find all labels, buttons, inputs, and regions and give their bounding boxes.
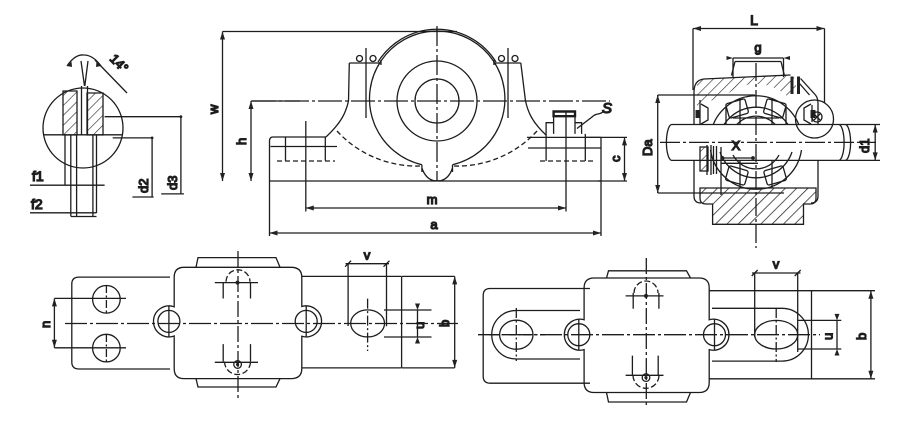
svg-text:m: m xyxy=(427,192,438,207)
right stud rings xyxy=(499,56,505,62)
svg-text:n: n xyxy=(38,321,53,328)
front view inner circle xyxy=(415,79,459,123)
plan2 right bolt circle xyxy=(704,324,726,346)
plan2 left foot xyxy=(483,289,590,384)
detail view balloon circle xyxy=(43,88,123,168)
bolt bottom end xyxy=(71,216,97,218)
side view right wall xyxy=(812,105,818,190)
plan1 body outline xyxy=(153,267,321,378)
detail hatched cap lug right xyxy=(87,93,103,135)
plan2 cap bolt axis xyxy=(645,258,647,408)
svg-text:v: v xyxy=(773,257,780,272)
right foot top xyxy=(527,136,601,138)
base bottom xyxy=(270,180,602,182)
side view right seal xyxy=(811,110,816,118)
plan1 top tab xyxy=(196,258,280,268)
right side fillet to foot xyxy=(526,101,547,135)
svg-text:b: b xyxy=(854,333,869,340)
svg-text:d2: d2 xyxy=(136,179,151,193)
side view left seal xyxy=(696,110,701,118)
front view left boss xyxy=(349,60,382,101)
side view roller top left xyxy=(725,99,748,119)
plan1 bottom tab xyxy=(196,379,280,387)
plan2 left bolt circle xyxy=(568,324,590,346)
detail split line chord xyxy=(44,134,122,136)
plan1 right foot xyxy=(302,276,402,368)
bottom slot sides xyxy=(422,165,453,172)
side view vertical centerline xyxy=(755,63,757,248)
svg-text:h: h xyxy=(234,138,249,145)
shaft left end arc xyxy=(666,125,671,161)
dimension h xyxy=(251,101,300,181)
shaft xyxy=(672,125,846,161)
svg-text:f1: f1 xyxy=(32,168,44,184)
side view cap top boss xyxy=(732,62,785,77)
plan2 bottom cap bolt stadium xyxy=(632,356,658,376)
right stud axis xyxy=(507,48,509,118)
svg-text:d1: d1 xyxy=(857,139,872,153)
right foot pad line xyxy=(528,147,601,149)
dimension L xyxy=(693,29,825,104)
side view grease nipple section xyxy=(791,77,794,95)
grease nipple bold xyxy=(554,112,575,117)
front view right boss xyxy=(494,60,526,101)
side view base left lobe xyxy=(694,190,701,203)
svg-text:g: g xyxy=(754,40,761,55)
dimension X xyxy=(723,157,754,159)
side view inner ring bottom arc xyxy=(733,155,779,169)
svg-text:S: S xyxy=(602,100,612,117)
plan2 left oval hole xyxy=(500,320,533,349)
right base edge xyxy=(600,137,602,181)
bolt shank outer lines xyxy=(65,135,97,213)
plan2 bottom tab xyxy=(607,393,691,403)
left stud axis xyxy=(365,48,367,118)
plan1 top cap bolt stadium xyxy=(226,270,250,282)
plan2 right oval hole xyxy=(755,320,798,349)
svg-text:f2: f2 xyxy=(31,196,43,212)
detail hatched cap lug left xyxy=(63,91,77,135)
detail groove V xyxy=(81,61,88,86)
dimension m xyxy=(306,207,566,209)
side view left wall xyxy=(694,100,700,190)
vertical centerline front view xyxy=(436,26,438,181)
side view cage lines bottom xyxy=(740,160,772,188)
plan1 right bolt circle xyxy=(295,310,317,332)
side view outer ring bottom arcs xyxy=(711,150,802,189)
side view locknut lines xyxy=(707,145,721,195)
side view cage lines top xyxy=(740,98,772,124)
side view top right bump xyxy=(800,79,819,123)
side view roller bottom left xyxy=(725,166,748,186)
dimension v plan1 xyxy=(346,264,390,327)
plan2 body outline xyxy=(564,278,729,393)
dimension n xyxy=(54,298,126,347)
dimension c xyxy=(586,137,627,181)
svg-text:c: c xyxy=(608,155,623,162)
bolt shank inner lines xyxy=(71,135,93,217)
svg-text:v: v xyxy=(364,248,371,263)
side view base hatched xyxy=(700,188,816,224)
hidden dashed cavity arc xyxy=(337,131,537,166)
plan1 horizontal centerline xyxy=(65,323,458,325)
side view base right lobe xyxy=(811,190,818,203)
horizontal centerline front view xyxy=(252,100,610,102)
hidden dashed base line xyxy=(277,160,595,162)
side view outer ring top arc xyxy=(711,96,802,135)
plan2 top cap bolt stadium xyxy=(634,281,658,293)
side view sleeve bottom line xyxy=(721,162,758,164)
dimension w xyxy=(223,32,458,182)
left bolt centerline xyxy=(305,121,307,212)
left side fillet to foot xyxy=(326,101,349,137)
side view cap outline xyxy=(694,75,791,122)
plan1 cap bolt axis xyxy=(237,251,239,398)
bottom cusp xyxy=(422,168,453,181)
plan1 foot hole lower xyxy=(93,334,121,362)
svg-text:L: L xyxy=(750,12,758,28)
svg-text:Da: Da xyxy=(640,139,655,156)
leader line 14 deg xyxy=(95,60,127,93)
balloon circle seal detail xyxy=(796,100,834,138)
shaft right end arc xyxy=(839,125,851,161)
grease fitting block sides xyxy=(546,134,585,161)
front view outer bore circle xyxy=(370,31,505,165)
svg-text:14°: 14° xyxy=(107,51,132,76)
grease fitting mid tier xyxy=(546,116,582,134)
d3 extension and leader xyxy=(105,117,184,194)
side view horizontal centerline xyxy=(660,141,876,143)
d2 extension and leader xyxy=(113,138,154,197)
plan1 bottom cap bolt stadium xyxy=(223,344,250,361)
balloon inner seal circle xyxy=(812,112,822,122)
side view inner ring top arc xyxy=(733,116,779,130)
front view cap arc xyxy=(378,29,496,62)
detail angle arc with arrowheads xyxy=(67,55,101,66)
side view inner ring faces top xyxy=(726,108,786,124)
dimension Da xyxy=(658,95,784,193)
svg-text:a: a xyxy=(430,217,438,232)
plan2 horizontal centerline xyxy=(478,334,820,336)
dimension d1 xyxy=(846,125,881,161)
svg-text:X: X xyxy=(732,138,741,153)
side view adapter sleeve hatched xyxy=(700,147,708,171)
left stud rings xyxy=(357,56,363,62)
side view roller top right xyxy=(763,99,786,119)
plan2 right foot xyxy=(709,291,811,379)
dimension g xyxy=(733,58,784,77)
side view roller bottom right xyxy=(763,166,786,186)
left foot top xyxy=(270,137,327,181)
dimension b plan2 xyxy=(812,291,876,379)
svg-text:d3: d3 xyxy=(165,176,180,190)
svg-text:w: w xyxy=(206,104,221,115)
right bolt centerline xyxy=(565,111,567,212)
front view middle circle xyxy=(397,61,477,141)
dimension v plan2 xyxy=(752,273,801,352)
svg-text:u: u xyxy=(821,333,836,340)
plan1 left foot xyxy=(72,277,170,369)
dimension u plan1 xyxy=(384,310,432,337)
dimension u plan2 xyxy=(798,320,841,349)
leader line S xyxy=(577,111,604,129)
plan2 top tab xyxy=(607,271,691,278)
plan1 oval hole xyxy=(351,310,385,337)
plan2 right recess contour xyxy=(712,308,808,361)
detail groove slot lines xyxy=(82,86,88,135)
dimension a xyxy=(270,181,602,236)
left foot spotface xyxy=(271,137,338,161)
side view hatched cap band xyxy=(697,75,796,106)
dimension line f1 xyxy=(30,184,105,186)
plan2 left recess contour xyxy=(492,311,580,360)
plan1 left bolt circle xyxy=(158,310,180,332)
side view outer ring inner arc xyxy=(720,107,792,133)
dimension line f2 xyxy=(30,212,96,214)
dimension b plan1 xyxy=(402,276,455,368)
plan1 foot hole upper xyxy=(93,286,121,314)
